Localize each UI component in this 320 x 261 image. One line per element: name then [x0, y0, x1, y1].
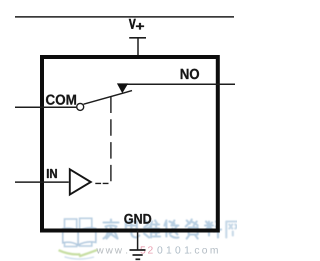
svg-text:0101: 0101	[157, 246, 193, 257]
V+ terminal bar	[129, 37, 146, 39]
switch blade wire	[84, 91, 132, 105]
GND pin label	[124, 214, 151, 224]
COM terminal circle	[77, 103, 84, 110]
NO pin label	[181, 69, 199, 79]
COM pin label	[46, 95, 76, 105]
switch contact arrow	[117, 83, 128, 93]
wire COM line	[15, 106, 76, 108]
ground symbol	[130, 250, 146, 259]
svg-text:www: www	[96, 245, 124, 256]
top rule	[15, 16, 234, 18]
IN pin label	[47, 169, 57, 178]
IC body box	[42, 57, 218, 231]
wire NO line	[118, 83, 235, 85]
watermark url www.520101.com	[96, 245, 221, 256]
svg-text:.com: .com	[189, 246, 221, 257]
V+ pin label	[129, 19, 136, 29]
input buffer amplifier	[70, 169, 91, 194]
watermark text (CJK approximation strokes)	[104, 220, 240, 239]
wire V+ stem	[137, 38, 139, 57]
dashed control line vertical	[110, 97, 112, 182]
watermark logo (open book)	[59, 218, 98, 259]
svg-text:.: .	[125, 245, 128, 256]
wire GND stem	[137, 231, 139, 251]
wire IN line	[15, 181, 69, 183]
dashed control line horizontal	[95, 182, 108, 184]
